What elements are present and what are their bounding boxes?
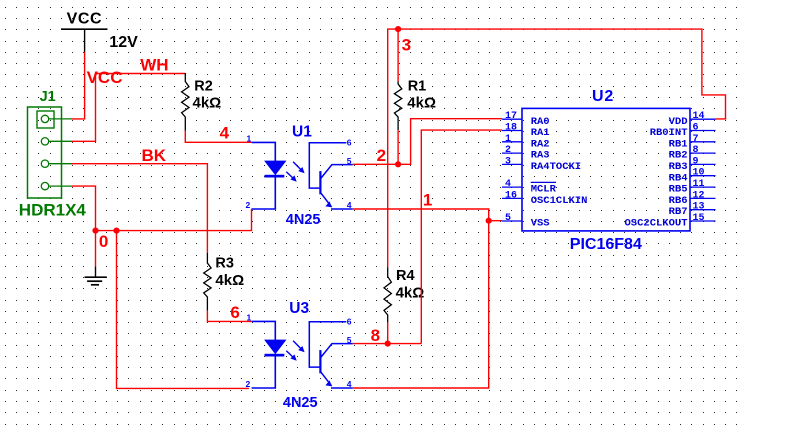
svg-text:6: 6 (347, 137, 352, 147)
svg-text:R2: R2 (194, 78, 213, 94)
wire net VCC vertical from power symbol to J1 pin 1 (72, 52, 85, 119)
svg-text:OSC1CLKIN: OSC1CLKIN (531, 195, 588, 207)
svg-text:4N25: 4N25 (283, 395, 318, 411)
U1 light arrows (293, 162, 303, 172)
svg-text:4N25: 4N25 (286, 212, 321, 228)
svg-text:10: 10 (693, 168, 705, 179)
svg-text:5: 5 (347, 156, 352, 166)
svg-text:VCC: VCC (87, 68, 123, 87)
svg-text:4kΩ: 4kΩ (193, 95, 222, 112)
junction net 2 (395, 161, 401, 167)
svg-text:16: 16 (505, 190, 517, 201)
svg-text:PIC16F84: PIC16F84 (570, 236, 642, 253)
U3 light arrows (293, 341, 303, 351)
resistor R4 (384, 267, 424, 322)
U1 pin 6 stub and base wire (309, 143, 346, 188)
resistor R1 (394, 78, 436, 130)
U1 collector and pin 5 stub (320, 165, 352, 179)
connector J1 (19, 89, 87, 220)
svg-text:U1: U1 (292, 123, 312, 140)
svg-text:13: 13 (693, 202, 705, 213)
svg-text:VCC: VCC (67, 11, 103, 28)
U1 emitter with arrow and pin 4 stub (320, 192, 331, 207)
U3 LED (265, 340, 286, 354)
svg-text:15: 15 (693, 213, 705, 224)
svg-text:RA3: RA3 (531, 150, 550, 162)
svg-text:6: 6 (347, 316, 352, 326)
svg-text:18: 18 (505, 123, 517, 134)
wire net 1 from U1 pin 4 to U2 pin 5 VSS and U3 pin 4 (353, 209, 502, 388)
junction net 3 (395, 26, 401, 32)
U2 right pin stubs (690, 118, 716, 120)
junction on net 0 at ground branch (92, 228, 98, 234)
svg-text:3: 3 (402, 36, 411, 55)
junction on net 0 at U3 branch (113, 228, 119, 234)
svg-text:OSC2CLKOUT: OSC2CLKOUT (624, 218, 687, 230)
junction net 8 (385, 341, 391, 347)
svg-text:4kΩ: 4kΩ (215, 272, 244, 289)
svg-text:1: 1 (247, 134, 252, 144)
wire net 8 from U3 pin 5 through R4 bottom up to U2 pin 18 (353, 130, 502, 344)
svg-text:RB1: RB1 (669, 138, 688, 150)
U3 emitter with arrow and pin 4 stub (320, 371, 331, 386)
resistor R2 (182, 73, 222, 131)
svg-text:5: 5 (505, 213, 511, 224)
resistor R3 (204, 253, 244, 311)
svg-text:VSS: VSS (531, 218, 550, 230)
svg-text:RA2: RA2 (531, 138, 550, 150)
svg-text:4: 4 (505, 179, 511, 190)
U3 transistor base bar (319, 350, 321, 373)
svg-text:4: 4 (220, 123, 230, 142)
U1 pin 1 stub (252, 142, 276, 161)
svg-text:0: 0 (99, 232, 108, 251)
wire net 3 from R1 top to U2 pin 14 VDD (398, 29, 725, 119)
svg-text:2: 2 (505, 145, 511, 156)
svg-text:MCLR: MCLR (531, 184, 557, 196)
U3 collector and pin 5 stub (320, 344, 352, 358)
optocoupler U3 (246, 300, 353, 411)
svg-text:RB2: RB2 (669, 150, 688, 162)
svg-text:1: 1 (505, 134, 511, 145)
svg-text:7: 7 (693, 134, 699, 145)
U1 LED (265, 161, 286, 175)
svg-text:11: 11 (693, 179, 705, 190)
wire net 6 from R3 bottom to U3 pin 1 (207, 311, 252, 322)
svg-text:RB6: RB6 (669, 195, 688, 207)
wire net WH from J1 pin 2 up and right to R2 (72, 74, 185, 142)
wire net 2 from U1 pin 5 to R1 bottom and U2 pin 17 (353, 119, 502, 165)
svg-text:6: 6 (693, 123, 699, 134)
svg-text:R1: R1 (408, 78, 427, 94)
svg-text:9: 9 (693, 156, 699, 167)
wire R1 bottom lead red (397, 130, 399, 164)
svg-text:RB3: RB3 (669, 161, 688, 173)
svg-text:12V: 12V (109, 34, 138, 51)
svg-text:5: 5 (347, 335, 352, 345)
svg-text:2: 2 (377, 146, 386, 165)
svg-text:U2: U2 (592, 88, 614, 105)
svg-text:1: 1 (423, 190, 432, 209)
ground (85, 267, 107, 285)
IC U2 PIC16F84 (502, 88, 716, 253)
svg-text:12: 12 (693, 190, 705, 201)
svg-text:4: 4 (347, 200, 352, 210)
svg-text:R3: R3 (215, 256, 234, 272)
wire net 0 from J1 pin 4 to ground and opto em??? pin2 nets (72, 186, 252, 388)
U1 transistor base bar (319, 171, 321, 194)
wire net 3 branch down to R4 (388, 29, 398, 267)
svg-text:J1: J1 (40, 89, 56, 105)
svg-text:RA0: RA0 (531, 116, 550, 128)
U1 LED cathode wire to pin 2 (252, 178, 276, 210)
svg-text:4: 4 (347, 379, 352, 389)
optocoupler U1 (246, 123, 353, 228)
svg-text:RB0INT: RB0INT (650, 127, 688, 139)
wire net 4 from R2 bottom to U1 pin 1 (185, 131, 252, 143)
svg-text:2: 2 (246, 379, 251, 389)
svg-text:HDR1X4: HDR1X4 (19, 201, 87, 220)
svg-text:6: 6 (230, 303, 239, 322)
svg-text:RB5: RB5 (669, 184, 688, 196)
svg-text:1: 1 (247, 313, 252, 323)
svg-text:WH: WH (140, 56, 168, 75)
svg-text:4kΩ: 4kΩ (407, 94, 436, 111)
svg-text:8: 8 (693, 145, 699, 156)
svg-text:RB4: RB4 (669, 172, 688, 184)
svg-text:RA1: RA1 (531, 127, 550, 139)
svg-text:RB7: RB7 (669, 206, 688, 218)
svg-text:RA4TOCKI: RA4TOCKI (531, 161, 581, 173)
wire R1 top lead red (397, 29, 399, 81)
junction net 1 (486, 218, 492, 224)
svg-text:3: 3 (505, 156, 511, 167)
svg-text:4kΩ: 4kΩ (396, 285, 425, 302)
svg-text:8: 8 (371, 326, 380, 345)
U2 left pin stubs (502, 118, 522, 120)
svg-text:BK: BK (142, 146, 167, 165)
svg-text:17: 17 (505, 111, 517, 122)
U3 pin 6 stub and base wire (309, 322, 346, 367)
svg-text:VDD: VDD (669, 116, 688, 128)
svg-text:R4: R4 (396, 268, 415, 284)
svg-text:14: 14 (693, 111, 705, 122)
svg-text:U3: U3 (289, 300, 309, 317)
U3 pin 1 stub (252, 321, 276, 340)
U3 LED cathode wire to pin 2 (252, 357, 276, 389)
wire net BK from J1 pin 3 to R3 (72, 164, 207, 253)
power VCC symbol (61, 11, 108, 52)
svg-text:2: 2 (246, 200, 251, 210)
